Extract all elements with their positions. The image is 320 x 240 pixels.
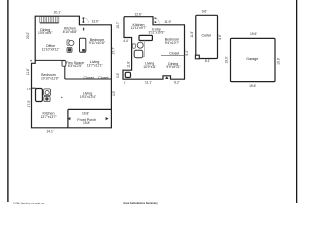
svg-text:8.1': 8.1'	[205, 59, 211, 63]
svg-text:19.9': 19.9'	[225, 56, 229, 63]
svg-text:13.9': 13.9'	[91, 19, 98, 23]
porch right arrow	[106, 117, 109, 120]
svg-text:10'10"x11'9": 10'10"x11'9"	[41, 76, 60, 80]
svg-text:1.5': 1.5'	[27, 88, 31, 91]
entry door middle plan	[154, 18, 159, 24]
svg-text:Area Calculations Summary: Area Calculations Summary	[123, 201, 158, 205]
page right border	[296, 0, 297, 203]
bath sink	[44, 96, 50, 101]
svg-text:8'10"x8'8": 8'10"x8'8"	[63, 30, 78, 34]
bathtub	[36, 89, 43, 102]
wall tick	[30, 60, 32, 62]
bath wall vertical	[144, 40, 146, 57]
svg-text:20.1': 20.1'	[54, 10, 61, 14]
cellar stair box	[195, 55, 199, 59]
svg-text:11.1': 11.1'	[145, 81, 152, 85]
svg-text:11.9': 11.9'	[164, 20, 171, 24]
kitchen sink cabinet	[67, 40, 69, 45]
fridge tick	[83, 28, 84, 31]
stairs hatch	[40, 16, 59, 22]
svg-text:13'7"x11'1": 13'7"x11'1"	[87, 64, 104, 68]
porch top wall	[68, 108, 112, 110]
flex space wall	[64, 60, 66, 79]
svg-text:10.7': 10.7'	[116, 21, 120, 28]
svg-text:19.6': 19.6'	[249, 84, 256, 88]
svg-text:12.6': 12.6'	[134, 12, 141, 16]
svg-text:11'10"x9'11": 11'10"x9'11"	[42, 48, 60, 52]
svg-text:8'3"x12'5": 8'3"x12'5"	[68, 64, 83, 68]
svg-text:11.6': 11.6'	[26, 68, 30, 75]
office bottom wall	[35, 59, 66, 61]
toilet	[44, 89, 51, 96]
svg-text:10'5"x8'5": 10'5"x8'5"	[38, 31, 53, 35]
svg-text:10'9"x11': 10'9"x11'	[143, 65, 156, 69]
svg-text:3.5': 3.5'	[116, 73, 120, 79]
cellar outline	[196, 15, 218, 58]
powder room fixture	[125, 72, 130, 77]
svg-text:9'11"x10'8": 9'11"x10'8"	[89, 41, 106, 45]
svg-text:TOTAL Sketch by a la mode, inc: TOTAL Sketch by a la mode, inc.	[13, 202, 45, 205]
svg-text:Closet: Closet	[98, 76, 108, 80]
svg-text:11.9': 11.9'	[190, 31, 194, 38]
svg-text:14.1': 14.1'	[46, 130, 53, 134]
svg-text:19'3"x13'4": 19'3"x13'4"	[80, 95, 97, 99]
closet wall	[65, 78, 112, 80]
svg-text:19.9': 19.9'	[276, 57, 280, 64]
refrigerator	[80, 38, 86, 52]
porch left wall	[67, 109, 69, 127]
svg-text:Closet: Closet	[84, 76, 94, 80]
svg-text:9'9"x9'11": 9'9"x9'11"	[166, 65, 181, 69]
svg-text:Closet: Closet	[169, 51, 179, 55]
svg-text:11'11"x9'7": 11'11"x9'7"	[131, 26, 148, 30]
svg-text:37.7': 37.7'	[112, 47, 116, 54]
toilet middle	[132, 44, 135, 48]
bath wall nub	[32, 87, 36, 89]
kitchen stove	[67, 47, 72, 52]
porch left arrow	[67, 117, 70, 120]
svg-text:4.4': 4.4'	[123, 39, 129, 43]
kitchen sink bowl	[69, 40, 74, 45]
svg-text:4.5': 4.5'	[112, 91, 116, 97]
entry door at top step	[83, 17, 89, 22]
exterior wall outline left plan	[32, 16, 112, 128]
svg-text:19.6': 19.6'	[250, 32, 257, 36]
svg-text:19.8': 19.8'	[83, 121, 90, 125]
svg-text:13'7"x13'7": 13'7"x13'7"	[41, 115, 58, 119]
svg-text:9.6': 9.6'	[218, 34, 222, 40]
svg-text:9.6': 9.6'	[202, 10, 208, 14]
hall mark	[61, 97, 62, 98]
page left border	[7, 0, 8, 202]
exterior wall outline middle plan	[123, 17, 185, 79]
tub middle	[134, 50, 143, 57]
svg-text:9.4': 9.4'	[185, 50, 189, 56]
svg-text:20.2': 20.2'	[26, 32, 30, 39]
svg-text:17.9': 17.9'	[27, 100, 31, 107]
svg-text:19.8': 19.8'	[82, 111, 89, 115]
svg-text:Cellar: Cellar	[202, 34, 212, 38]
svg-text:9'4"x10'7": 9'4"x10'7"	[165, 41, 180, 45]
bath wall bottom	[135, 56, 145, 58]
kitchen counter	[139, 35, 152, 40]
bedroom door leaf	[62, 61, 66, 66]
svg-text:11.8': 11.8'	[127, 61, 131, 68]
svg-text:3'11"x10'9": 3'11"x10'9"	[148, 31, 165, 35]
svg-text:Garage: Garage	[246, 57, 258, 61]
door threshold arrow bottom	[165, 76, 169, 79]
svg-text:6.2': 6.2'	[174, 81, 180, 85]
closet wall	[161, 55, 185, 57]
garage outline	[231, 38, 276, 81]
